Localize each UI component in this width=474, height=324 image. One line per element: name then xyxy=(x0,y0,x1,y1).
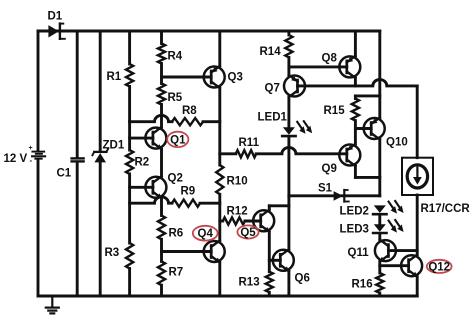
svg-text:S1: S1 xyxy=(318,183,333,195)
svg-text:Q7: Q7 xyxy=(265,83,280,95)
resistor R6 xyxy=(158,216,165,240)
transistor Q2 xyxy=(145,176,166,199)
wire ZD1 column upper xyxy=(99,31,102,151)
svg-text:R14: R14 xyxy=(260,46,282,58)
svg-text:ZD1: ZD1 xyxy=(103,140,125,152)
resistor R16 xyxy=(376,273,383,293)
wire R13 bottom lead xyxy=(268,292,271,296)
wire R14 to Q7 collector xyxy=(287,57,290,75)
wire C1 column lower xyxy=(76,162,79,296)
wire R15 bottom node xyxy=(354,121,357,144)
svg-text:Q3: Q3 xyxy=(228,72,243,84)
label S1 xyxy=(318,183,333,195)
label R15 xyxy=(324,105,346,117)
label R9 xyxy=(181,186,196,198)
wire Q2 base xyxy=(130,186,153,189)
wire LED2-LED3 xyxy=(378,215,381,224)
wire Q8 base xyxy=(289,65,347,68)
wire Q10 base xyxy=(355,127,371,130)
wire top supply rail xyxy=(38,30,380,33)
svg-text:LED1: LED1 xyxy=(258,112,288,124)
wire R5 to Q1 collector xyxy=(160,105,163,128)
svg-text:Q1: Q1 xyxy=(170,134,186,146)
label Q6 xyxy=(295,273,310,285)
svg-text:R16: R16 xyxy=(352,279,373,291)
led LED1 xyxy=(282,127,295,136)
wire Q3 collector to rail xyxy=(218,31,221,66)
wire Q12 base xyxy=(380,264,409,267)
wire LED1 to S1 node xyxy=(287,137,290,196)
wire Q5 emitter to R13 xyxy=(268,232,271,272)
svg-text:R8: R8 xyxy=(182,105,197,117)
wire battery column upper xyxy=(37,31,40,151)
wire Q1 emitter to Q2 collector xyxy=(160,149,163,176)
svg-text:12 V: 12 V xyxy=(4,153,28,165)
label R3 xyxy=(105,247,120,259)
wire R9 right lead xyxy=(200,202,220,205)
regulator R17/CCR box xyxy=(402,158,433,195)
wire Q9 emitter to LED column xyxy=(355,166,379,177)
wire R8 right lead xyxy=(203,120,220,123)
wire R1 top lead xyxy=(128,31,131,64)
label R13 xyxy=(239,277,260,289)
transistor Q6 xyxy=(273,249,294,272)
label LED2 xyxy=(340,206,369,218)
resistor R11 xyxy=(236,150,256,157)
svg-text:Q9: Q9 xyxy=(322,163,337,175)
wire Q11 base xyxy=(388,249,417,252)
transistor Q4 xyxy=(204,241,225,264)
capacitor C1 xyxy=(72,158,84,161)
svg-text:+: + xyxy=(29,145,33,152)
label Q12 circled xyxy=(427,260,452,274)
svg-text:R4: R4 xyxy=(168,51,183,63)
transistor Q9 xyxy=(339,144,360,166)
wire Q3 base xyxy=(162,76,212,79)
wire R17 column lower xyxy=(416,195,419,255)
wire Q1 base xyxy=(130,137,153,140)
svg-text:-: - xyxy=(30,156,33,165)
resistor R8 xyxy=(172,118,203,125)
wire R15 top node xyxy=(355,96,379,99)
wire R3 bottom lead xyxy=(128,269,131,297)
wire R8 left with hop xyxy=(130,115,172,121)
resistor R12 xyxy=(223,217,245,224)
wire battery column lower xyxy=(37,160,40,296)
wire Q6 collector xyxy=(287,196,290,250)
wire R4-R5 segment node xyxy=(160,64,163,84)
wire Q7 emitter to LED1 xyxy=(287,97,290,127)
svg-text:Q4: Q4 xyxy=(198,228,214,240)
wire C1 column upper xyxy=(76,31,79,157)
transistor Q12 xyxy=(401,255,422,278)
label Q8 xyxy=(322,53,338,65)
label 12 V xyxy=(4,153,28,165)
label Q5 circled xyxy=(237,225,258,239)
wire R7 bottom lead xyxy=(160,285,163,296)
wire R12 left lead xyxy=(220,220,223,223)
label Q11 xyxy=(348,247,370,259)
led LED1 light arrows xyxy=(297,121,312,134)
resistor R5 xyxy=(158,84,165,105)
transistor Q11 xyxy=(375,240,396,263)
svg-text:R2: R2 xyxy=(135,157,150,169)
label R6 xyxy=(169,228,184,240)
wire R2-R3 segment xyxy=(128,174,131,243)
wire R16 bottom lead xyxy=(378,293,381,296)
label LED1 xyxy=(258,112,288,124)
wire Q3 emitter segment xyxy=(218,88,221,165)
wire R11 right with hop to Q9 base xyxy=(256,147,347,153)
switch S1 xyxy=(334,190,349,202)
resistor R1 xyxy=(126,64,133,87)
resistor R10 xyxy=(216,165,223,194)
wire Q4 emitter lead xyxy=(218,263,221,297)
svg-text:R17/CCR: R17/CCR xyxy=(421,203,471,215)
svg-text:Q10: Q10 xyxy=(386,137,408,149)
wire Q8 emitter xyxy=(354,78,357,86)
label R8 xyxy=(182,105,197,117)
svg-text:LED2: LED2 xyxy=(340,206,369,218)
wire R9 left with hop xyxy=(130,197,172,203)
wire Q10 collector from rail xyxy=(378,31,381,118)
label R17/CCR xyxy=(421,203,471,215)
resistor R7 xyxy=(158,261,165,285)
led LED3 xyxy=(373,224,386,233)
label Q7 xyxy=(265,83,280,95)
resistor R2 xyxy=(126,150,133,174)
wire R11 left lead xyxy=(220,152,236,155)
wire R1-R2 segment xyxy=(128,87,131,151)
svg-text:R5: R5 xyxy=(168,92,183,104)
svg-text:R9: R9 xyxy=(181,186,196,198)
diode D1 xyxy=(48,24,64,39)
label Q9 xyxy=(322,163,337,175)
label R5 xyxy=(168,92,183,104)
label Q2 xyxy=(168,173,183,185)
label LED3 xyxy=(340,224,369,236)
wire Q4 base xyxy=(162,250,212,253)
svg-text:Q8: Q8 xyxy=(322,53,338,65)
wire Q11 emitter node xyxy=(378,262,381,273)
svg-text:R13: R13 xyxy=(239,277,260,289)
wire Q12 emitter lead xyxy=(416,277,419,296)
label Q10 xyxy=(386,137,408,149)
ground xyxy=(46,296,59,313)
wire R4 top lead xyxy=(160,31,163,44)
transistor Q1 xyxy=(145,127,166,150)
wire R6-R7 segment node xyxy=(160,239,163,261)
wire Q10 emitter segment xyxy=(378,140,381,196)
resistor R14 xyxy=(285,35,292,57)
svg-text:Q11: Q11 xyxy=(348,247,370,259)
label R10 xyxy=(227,176,248,188)
label R11 xyxy=(239,137,260,149)
svg-text:Q12: Q12 xyxy=(428,261,450,273)
wire Q6 emitter lead xyxy=(287,271,290,296)
wire Q5 collector xyxy=(269,206,289,210)
battery B1 12V xyxy=(29,145,46,165)
transistor Q10 xyxy=(364,118,385,140)
svg-text:Q6: Q6 xyxy=(295,273,310,285)
label R16 xyxy=(352,279,373,291)
svg-text:R15: R15 xyxy=(324,105,346,117)
label R7 xyxy=(169,267,184,279)
label C1 xyxy=(57,168,72,180)
resistor R4 xyxy=(158,44,165,64)
wire R17 column upper xyxy=(416,86,419,158)
transistor Q5 xyxy=(253,210,274,233)
resistor R15 xyxy=(352,99,359,121)
wire bottom ground rail xyxy=(38,295,417,298)
wire R14 top lead xyxy=(287,31,290,35)
svg-text:C1: C1 xyxy=(57,168,72,180)
svg-text:R1: R1 xyxy=(107,71,122,83)
svg-text:R7: R7 xyxy=(169,267,184,279)
label Q1 circled xyxy=(167,132,188,147)
wire Q6 base xyxy=(269,259,280,262)
svg-text:R3: R3 xyxy=(105,247,120,259)
label R1 xyxy=(107,71,122,83)
label Q3 xyxy=(228,72,243,84)
transistor Q7 xyxy=(284,75,305,97)
svg-text:Q5: Q5 xyxy=(240,227,256,239)
wire S1 run xyxy=(289,194,380,197)
svg-text:LED3: LED3 xyxy=(340,224,369,236)
label R14 xyxy=(260,46,282,58)
svg-text:R10: R10 xyxy=(227,176,248,188)
wire ZD1 column lower xyxy=(99,162,102,296)
resistor R9 xyxy=(172,200,200,207)
label ZD1 xyxy=(103,140,125,152)
svg-text:R6: R6 xyxy=(169,228,184,240)
label Q4 circled xyxy=(193,226,218,241)
led LED2 xyxy=(373,205,386,214)
label R12 xyxy=(227,206,248,218)
wire Q2 emitter to R6 xyxy=(160,198,163,215)
led LED2 light arrows xyxy=(389,201,404,214)
zener ZD1 xyxy=(92,149,108,163)
wire Q7 base to R17 column with hop xyxy=(298,80,418,86)
svg-text:D1: D1 xyxy=(48,11,63,23)
led LED3 light arrows xyxy=(389,220,404,233)
svg-text:R11: R11 xyxy=(239,137,260,149)
resistor R13 xyxy=(266,272,273,293)
transistor Q3 xyxy=(204,66,225,88)
transistor Q8 xyxy=(339,56,360,78)
label R4 xyxy=(168,51,183,63)
wire Q8 collector to rail xyxy=(354,31,357,56)
label D1 xyxy=(48,11,63,23)
label R2 xyxy=(135,157,150,169)
wire R12 right lead xyxy=(245,220,261,223)
wire LED3 to Q11 collector xyxy=(378,234,381,240)
wire R10 to Q4 collector xyxy=(218,194,221,240)
resistor R3 xyxy=(126,243,133,269)
svg-text:R12: R12 xyxy=(227,206,248,218)
svg-text:Q2: Q2 xyxy=(168,173,183,185)
